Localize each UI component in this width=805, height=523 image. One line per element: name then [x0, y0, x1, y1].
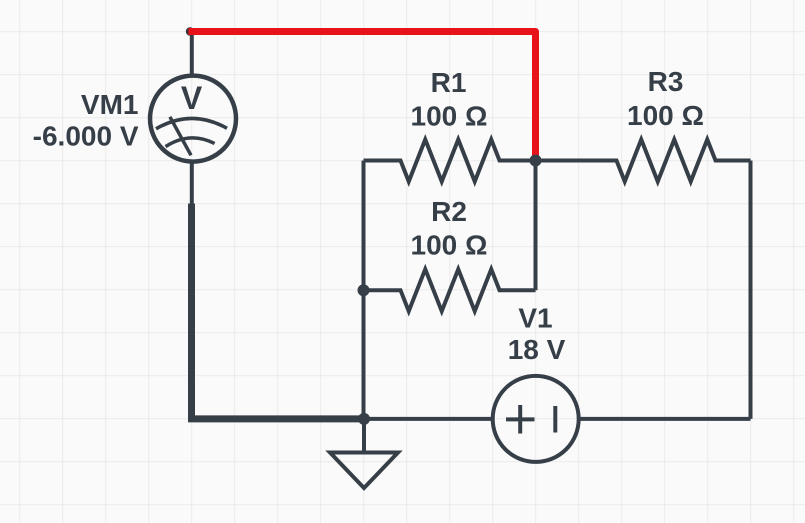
resistor R3: [536, 140, 751, 182]
resistor R1: [364, 140, 536, 182]
wire: thick selected wire from VM1 bottom to ground junction: [192, 204, 365, 419]
node: junction dot at R2 left: [358, 284, 370, 296]
node: endpoint dot at red wire start: [186, 27, 194, 35]
svg-text:V: V: [181, 80, 203, 116]
wire: VM1 top lead: [190, 32, 194, 78]
svg-text:100 Ω: 100 Ω: [411, 230, 488, 261]
wire: mid rail from node A down to R2 right: [534, 161, 538, 291]
wire: right rail up to R3 right: [749, 161, 753, 419]
wire: VM1 bottom lead (thin): [190, 160, 194, 204]
voltmeter VM1: [150, 76, 236, 162]
voltage source V1: [493, 376, 579, 462]
wire: bottom net from ground junction to V1 left terminal: [364, 417, 494, 421]
svg-text:V1: V1: [518, 303, 552, 334]
svg-text:100 Ω: 100 Ω: [627, 100, 704, 131]
wire: V1 right terminal to right rail: [578, 417, 751, 421]
svg-text:R3: R3: [648, 66, 684, 97]
svg-text:VM1: VM1: [81, 89, 139, 120]
ground: [330, 419, 398, 488]
wire: left rail from R1 left down to bottom net: [362, 161, 366, 419]
svg-text:R2: R2: [431, 196, 467, 227]
node: ground junction dot: [358, 413, 370, 425]
svg-text:18 V: 18 V: [508, 334, 566, 365]
svg-text:R1: R1: [431, 67, 467, 98]
resistor R2: [364, 269, 536, 311]
svg-text:-6.000 V: -6.000 V: [33, 121, 139, 152]
wire: red highlighted net from VM1 top to node A: [189, 32, 536, 158]
node A: junction dot at R1/R3/red wire: [530, 155, 542, 167]
svg-text:100 Ω: 100 Ω: [411, 101, 488, 132]
